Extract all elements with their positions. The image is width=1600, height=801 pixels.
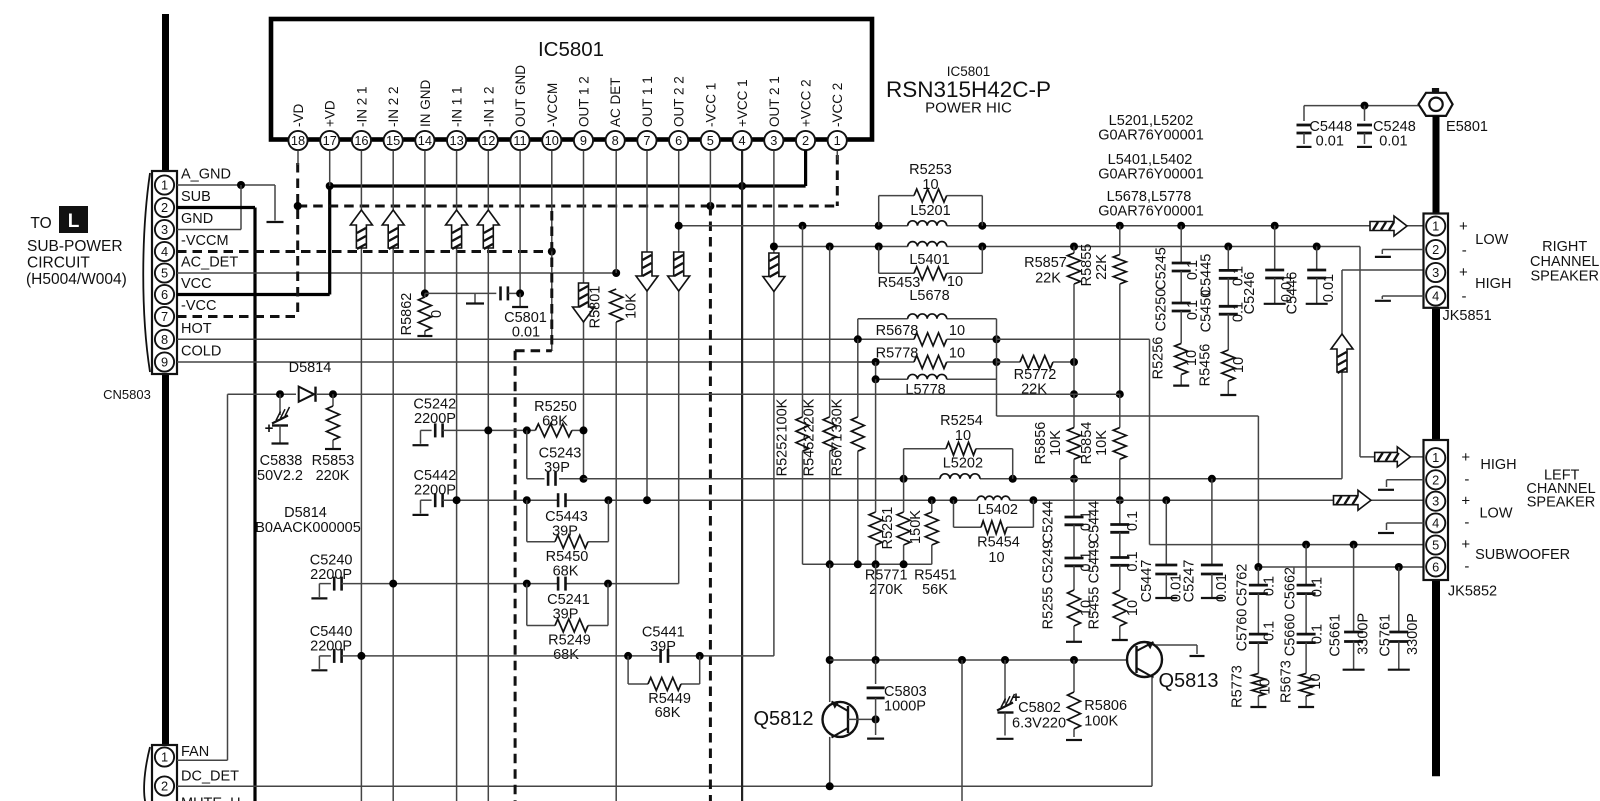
junction row479 R5254L: [900, 475, 908, 483]
svg-text:R5254: R5254: [940, 413, 983, 429]
label C5761: [1377, 614, 1393, 657]
L block symbol: [59, 206, 88, 233]
svg-text:R5671: R5671: [830, 434, 846, 477]
wire JK5852 pin2 stub: [1378, 480, 1424, 490]
capacitor C5447: [1155, 500, 1177, 598]
svg-text:100K: 100K: [775, 398, 791, 432]
svg-text:C5449: C5449: [1086, 541, 1102, 584]
svg-text:2: 2: [1432, 242, 1439, 257]
svg-text:4: 4: [1432, 288, 1439, 303]
wire Q5813 collector: [1156, 645, 1205, 656]
junction COLD right: [993, 358, 1001, 366]
label R5251: [880, 507, 896, 550]
svg-text:6: 6: [675, 133, 682, 148]
svg-text:16: 16: [354, 133, 368, 148]
junction -VCCM: [548, 248, 556, 256]
wire pin6 column: [678, 151, 680, 584]
junction row583 pin15: [389, 580, 397, 588]
label DC_DET: [181, 769, 239, 785]
label C5247: [1182, 560, 1198, 603]
svg-text:39P: 39P: [544, 460, 570, 476]
label L5401,L5402: [1108, 152, 1193, 168]
label R5854 value: [1094, 430, 1110, 456]
wire HOT extension: [858, 338, 997, 340]
label R5853 value: [316, 468, 350, 484]
svg-text:3300P: 3300P: [1405, 613, 1421, 655]
connector JK5851 pins: [1426, 216, 1445, 305]
junction A_GND/GND: [237, 181, 245, 189]
label C5244: [1041, 501, 1057, 544]
label R5255 value: [1078, 600, 1094, 616]
label R5673: [1279, 660, 1295, 703]
svg-text:L5778: L5778: [905, 382, 945, 398]
svg-text:R5255: R5255: [1041, 587, 1057, 630]
svg-text:RIGHT: RIGHT: [1542, 239, 1587, 255]
arrow in pin16: [350, 210, 372, 249]
svg-text:-VD: -VD: [291, 104, 306, 128]
svg-text:C5450: C5450: [1199, 290, 1215, 333]
svg-text:1: 1: [161, 177, 168, 192]
svg-text:JK5852: JK5852: [1448, 584, 1497, 600]
svg-text:18: 18: [291, 133, 305, 148]
label CIRCUIT: [27, 255, 90, 272]
label JK5852 HIGH: [1480, 457, 1516, 473]
resistor R5251: [897, 479, 910, 565]
svg-text:220K: 220K: [316, 468, 350, 484]
capacitor C5244: [1065, 479, 1084, 525]
resistor R5857: [1068, 247, 1081, 363]
connector CN5803 pins 1-9: [155, 175, 174, 371]
wire COLD extension: [858, 361, 997, 363]
wire pin12 column: [487, 151, 489, 801]
svg-text:VCC: VCC: [181, 276, 212, 292]
svg-text:R5678: R5678: [876, 323, 919, 339]
svg-text:MUTE_H: MUTE_H: [181, 796, 241, 801]
label JK5852 minus1: [1464, 471, 1469, 488]
svg-text:5: 5: [707, 133, 714, 148]
svg-text:R5862: R5862: [399, 293, 415, 336]
label JK5851: [1443, 308, 1492, 324]
label C5442: [414, 468, 457, 484]
IC5801 pin labels: [291, 65, 845, 127]
wire row430: [443, 429, 584, 431]
svg-text:(H5004/W004): (H5004/W004): [26, 271, 127, 288]
junction B R5452: [826, 243, 834, 251]
capacitor C5446: [1306, 247, 1328, 304]
wire pin5 stub: [709, 151, 711, 207]
capacitor C5838: [272, 394, 290, 443]
label JK5852 plus1: [1461, 449, 1470, 466]
junction row500 C5447col: [1162, 496, 1170, 504]
junction row660 left: [826, 656, 834, 664]
junction pin6row left: [1254, 563, 1262, 571]
label LEFT: [1544, 468, 1580, 484]
junction row430 pin9: [580, 426, 588, 434]
junction row583 bracketR: [604, 580, 612, 588]
label R5251 value: [908, 510, 924, 544]
svg-text:CN5803: CN5803: [103, 387, 151, 402]
resistor R5451: [925, 500, 938, 564]
svg-text:CIRCUIT: CIRCUIT: [27, 255, 90, 272]
svg-text:G0AR76Y00001: G0AR76Y00001: [1098, 204, 1204, 220]
resistor R5252: [796, 226, 809, 565]
label C5445 value: [1230, 266, 1246, 286]
label C5803: [884, 684, 927, 700]
svg-text:L5202: L5202: [943, 456, 983, 472]
label R5856: [1033, 422, 1049, 465]
label R5455 value: [1125, 600, 1141, 616]
label C5444 value: [1125, 511, 1141, 531]
svg-text:10: 10: [1231, 357, 1247, 373]
svg-text:OUT 2 1: OUT 2 1: [767, 76, 782, 127]
terminal E5801: [1419, 88, 1453, 116]
svg-text:6: 6: [161, 287, 168, 302]
label R5254: [940, 413, 983, 429]
capacitor C5240: [311, 577, 341, 599]
diode D5814: [299, 387, 316, 402]
junction row564 R5771: [872, 560, 880, 568]
wire pin16 column: [360, 151, 362, 801]
label C5801: [504, 310, 547, 326]
label R5253: [909, 162, 952, 178]
svg-text:SUBWOOFER: SUBWOOFER: [1475, 547, 1570, 563]
svg-text:-IN 2 2: -IN 2 2: [386, 86, 401, 127]
capacitor C5440: [311, 649, 341, 670]
junction row564 R5671: [854, 560, 862, 568]
svg-text:8: 8: [612, 133, 619, 148]
connector JK5851 body: [1424, 214, 1449, 308]
svg-text:-VCCM: -VCCM: [181, 233, 229, 249]
wire pin4 column: [741, 151, 743, 801]
label (H5004/W004): [26, 271, 127, 288]
svg-text:56K: 56K: [922, 582, 948, 598]
label R5249 value: [553, 647, 579, 663]
junction A L5201 left: [875, 222, 883, 230]
junction +VCC1: [738, 182, 746, 190]
label IC5801 ref: [947, 64, 991, 79]
junction row500 pin7: [643, 496, 651, 504]
svg-text:R5452: R5452: [802, 434, 818, 477]
svg-text:L5402: L5402: [978, 502, 1018, 518]
svg-text:-VCC: -VCC: [181, 298, 216, 314]
label C5762: [1234, 564, 1250, 607]
svg-text:L: L: [68, 211, 80, 232]
svg-text:2: 2: [161, 200, 168, 215]
label C5443: [545, 509, 588, 525]
transistor Q5812: [823, 702, 858, 738]
svg-text:C5246: C5246: [1242, 272, 1258, 315]
junction row500 L5402L: [950, 496, 958, 504]
label G0AR76Y00001 c: [1098, 204, 1204, 220]
label R5252: [775, 434, 791, 477]
label L5678: [909, 288, 949, 304]
svg-text:-: -: [1462, 288, 1467, 305]
label C5662 value: [1310, 577, 1326, 597]
label C5661 value: [1355, 613, 1371, 655]
junction pin6row C5761: [1395, 563, 1403, 571]
resistor R5854: [1113, 394, 1126, 500]
svg-text:0.01: 0.01: [1321, 274, 1337, 302]
svg-text:330K: 330K: [830, 398, 846, 432]
label R5854: [1079, 422, 1095, 465]
inductor L5202: [940, 474, 980, 479]
svg-text:15: 15: [386, 133, 400, 148]
resistor R5678: [914, 333, 947, 346]
label R5256: [1151, 337, 1167, 380]
capacitor C5801: [501, 286, 508, 300]
label R5455: [1086, 587, 1102, 630]
inductor L5778: [908, 374, 947, 379]
junction B L5401 left: [875, 243, 883, 251]
junction row660 R5806: [1070, 656, 1078, 664]
wire JK5851 pin4 stub: [1375, 296, 1424, 301]
arrow out pin9: [573, 283, 595, 322]
label Q5813: [1158, 670, 1218, 692]
svg-text:SPEAKER: SPEAKER: [1530, 269, 1599, 285]
resistor R5253: [914, 189, 947, 202]
svg-text:G0AR76Y00001: G0AR76Y00001: [1098, 128, 1204, 144]
lower connector brace: [144, 747, 150, 801]
svg-text:C5760: C5760: [1234, 609, 1250, 652]
label R5678 value: [949, 323, 965, 339]
junction L5778 left: [872, 375, 880, 383]
resistor R5862: [417, 293, 432, 336]
capacitor C5250: [1172, 271, 1191, 311]
svg-text:GND: GND: [181, 211, 213, 227]
wire -VCCM row: [177, 250, 552, 253]
label R5254 value: [955, 428, 971, 444]
resistor R5772: [997, 356, 1075, 369]
capacitor C5448: [1297, 106, 1312, 147]
wire -VCC row: [177, 315, 298, 318]
svg-text:R5454: R5454: [977, 535, 1020, 551]
svg-text:AC DET: AC DET: [608, 77, 623, 127]
svg-text:R5455: R5455: [1086, 587, 1102, 630]
label R5450: [546, 549, 589, 565]
svg-text:POWER HIC: POWER HIC: [925, 100, 1012, 117]
svg-text:10: 10: [545, 133, 559, 148]
svg-text:R5252: R5252: [775, 434, 791, 477]
wire AC_DET row: [177, 272, 616, 274]
label R5853: [312, 453, 355, 469]
wire row564: [803, 563, 932, 565]
svg-text:0.01: 0.01: [512, 325, 540, 341]
resistor R5456: [1220, 314, 1236, 395]
svg-text:39P: 39P: [552, 524, 578, 540]
svg-text:270K: 270K: [869, 582, 903, 598]
resistor R5671: [851, 339, 864, 564]
inductor L5401: [908, 242, 947, 247]
label C5249 value: [1078, 551, 1094, 571]
label R5671: [830, 434, 846, 477]
ground stub mid: [466, 293, 484, 303]
svg-text:L5401: L5401: [909, 252, 949, 268]
svg-text:7: 7: [643, 133, 650, 148]
label R5449 value: [655, 705, 681, 721]
svg-text:10K: 10K: [1048, 430, 1064, 456]
wire -VCC rail: [298, 155, 838, 206]
label SPEAKER r: [1530, 269, 1599, 285]
capacitor C5802: [997, 660, 1015, 739]
label C5244 value: [1078, 511, 1094, 531]
svg-text:3: 3: [1432, 265, 1439, 280]
label R5855 value: [1094, 254, 1110, 280]
label R5253 value: [922, 177, 938, 193]
svg-text:150K: 150K: [908, 510, 924, 544]
svg-text:R5857: R5857: [1024, 255, 1067, 271]
svg-text:OUT 1 2: OUT 1 2: [576, 76, 591, 127]
resistor R5249 bracket: [527, 584, 608, 626]
arrow in pin12: [477, 210, 499, 249]
label C5446: [1285, 272, 1301, 315]
svg-text:R5806: R5806: [1084, 698, 1127, 714]
wire D5814 row: [228, 393, 1120, 395]
junction COLD left: [872, 358, 880, 366]
capacitor C5445: [1219, 247, 1238, 279]
wire row583: [342, 583, 679, 585]
svg-text:39P: 39P: [650, 639, 676, 655]
capacitor C5243: [527, 430, 584, 485]
svg-text:D5814: D5814: [289, 360, 332, 376]
junction R5772 right: [1070, 358, 1078, 366]
svg-text:R5854: R5854: [1079, 422, 1095, 465]
svg-text:+: +: [1461, 493, 1470, 510]
svg-text:9: 9: [161, 354, 168, 369]
resistor R5673: [1298, 643, 1314, 707]
label C5448 value: [1316, 134, 1344, 150]
label JK5851 plus1: [1459, 218, 1468, 235]
label C5447 value: [1169, 574, 1185, 602]
svg-text:+: +: [1459, 218, 1468, 235]
svg-text:+: +: [1459, 264, 1468, 281]
junction row655 bracketL: [624, 652, 632, 660]
junction A C5245: [1177, 222, 1185, 230]
junction row500 bracketL: [523, 496, 531, 504]
label G0AR76Y00001 a: [1098, 128, 1204, 144]
arrow out pin3: [763, 253, 785, 292]
label R5255: [1041, 587, 1057, 630]
svg-text:+: +: [1461, 536, 1470, 553]
junction row430 bracket: [523, 426, 531, 434]
lower connector pin 2: [155, 776, 174, 795]
wire row660: [830, 659, 1127, 661]
junction AC_DET: [612, 269, 620, 277]
svg-text:L5678: L5678: [909, 288, 949, 304]
svg-text:13: 13: [449, 133, 463, 148]
label C5450: [1199, 290, 1215, 333]
svg-text:Q5813: Q5813: [1158, 670, 1218, 692]
label R5857 value: [1035, 271, 1061, 287]
label R5671 value: [830, 398, 846, 432]
label R5453: [878, 275, 921, 291]
lower connector pin 1: [155, 747, 174, 766]
svg-text:IN GND: IN GND: [418, 79, 433, 127]
capacitor C5248: [1357, 106, 1372, 147]
capacitor C5443: [558, 493, 565, 507]
svg-text:2200P: 2200P: [310, 567, 352, 583]
label RSN315H42C-P: [886, 77, 1051, 102]
svg-text:5: 5: [161, 265, 168, 280]
svg-text:2200P: 2200P: [310, 639, 352, 655]
svg-text:10K: 10K: [1094, 430, 1110, 456]
CN5803 row labels: [181, 167, 238, 360]
resistor R5254 bracket: [904, 449, 1013, 479]
ground A_GND: [267, 185, 284, 222]
label C5242 value: [414, 411, 456, 427]
junction row583 bracketL: [523, 580, 531, 588]
svg-text:10: 10: [955, 428, 971, 444]
junction R5853: [329, 390, 337, 398]
resistor R5856: [1068, 394, 1081, 479]
capacitor C5442: [413, 493, 443, 515]
junction B C5446: [1313, 243, 1321, 251]
junction B pin3: [770, 243, 778, 251]
arrow in pin15: [382, 210, 404, 249]
label R5801: [588, 286, 604, 329]
svg-text:7: 7: [161, 309, 168, 324]
resistor R5256: [1173, 311, 1189, 386]
label E5801: [1446, 119, 1488, 135]
label R5778: [876, 346, 919, 362]
svg-text:C5762: C5762: [1234, 564, 1250, 607]
junction Q5812 base: [872, 715, 880, 723]
wire subwoofer riser: [997, 379, 1259, 567]
label L5202: [943, 456, 983, 472]
arrow to JK5852 pin1: [1375, 447, 1411, 467]
svg-text:68K: 68K: [553, 647, 579, 663]
svg-text:R5253: R5253: [909, 162, 952, 178]
capacitor C5246: [1264, 226, 1286, 304]
junction IN GND: [421, 289, 429, 297]
IC5801 pin circles: [288, 131, 846, 150]
arrow out pin6: [668, 252, 690, 291]
svg-text:10: 10: [988, 550, 1004, 566]
wire HOT row: [177, 338, 858, 340]
wire DC_DET row: [177, 785, 1152, 787]
svg-text:C5442: C5442: [414, 468, 457, 484]
resistor R5253 bracket: [879, 196, 983, 226]
label L5401: [909, 252, 949, 268]
resistor R5771: [869, 379, 882, 564]
capacitor C5449: [1110, 532, 1129, 565]
svg-text:C5245: C5245: [1154, 247, 1170, 290]
svg-text:6: 6: [1432, 559, 1439, 574]
label C5250 value: [1185, 300, 1201, 320]
wire HOT to sub: [997, 339, 1424, 544]
capacitor C5441: [661, 649, 668, 663]
label L5678,L5778: [1107, 189, 1192, 205]
label C5241: [547, 592, 590, 608]
junction A R5855: [1116, 222, 1124, 230]
junction row500 pin13: [453, 496, 461, 504]
junction Q5812 DC_DET: [826, 782, 834, 790]
label C5762 value: [1262, 576, 1278, 596]
svg-text:0.1: 0.1: [1262, 576, 1278, 596]
bus left upper: [162, 14, 169, 171]
wire net-A: [679, 225, 1424, 227]
resistor R5455: [1112, 565, 1128, 640]
label R5456: [1198, 344, 1214, 387]
label R5772 value: [1021, 382, 1047, 398]
svg-text:C5662: C5662: [1283, 567, 1299, 610]
svg-text:2: 2: [1432, 472, 1439, 487]
inductor L5678: [908, 314, 947, 319]
resistor R5449: [648, 678, 681, 691]
label C5447: [1139, 560, 1155, 603]
label JK5852 plus3: [1461, 536, 1470, 553]
svg-text:C5661: C5661: [1328, 614, 1344, 657]
wire pin1 stub: [836, 151, 838, 161]
